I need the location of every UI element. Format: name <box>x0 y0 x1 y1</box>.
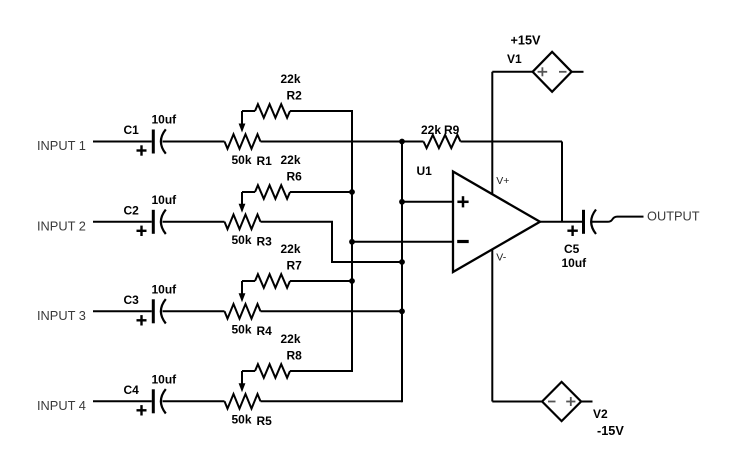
node junction C <box>399 259 405 265</box>
svg-text:50k: 50k <box>232 413 252 427</box>
wire <box>163 141 225 143</box>
capacitor C3 10uf <box>124 282 178 325</box>
svg-text:10uf: 10uf <box>562 256 588 270</box>
source V1 +15V <box>507 34 584 92</box>
wire <box>93 400 152 402</box>
svg-text:10uf: 10uf <box>152 193 178 207</box>
svg-text:C4: C4 <box>124 383 140 397</box>
capacitor C2 10uf <box>124 193 178 236</box>
svg-text:R2: R2 <box>287 89 303 103</box>
svg-text:-15V: -15V <box>597 424 624 438</box>
svg-text:C2: C2 <box>124 203 140 217</box>
resistor R7 22k <box>242 242 352 288</box>
potentiometer R5 50k <box>225 371 273 428</box>
wire to op-amp non-inverting input <box>402 201 453 203</box>
svg-text:C3: C3 <box>124 293 140 307</box>
wire row1 pot to summing bus <box>261 141 403 143</box>
wire row3 pot to bus <box>261 310 403 312</box>
node INPUT 1 label <box>37 138 86 153</box>
node junction F <box>349 239 355 245</box>
svg-text:C1: C1 <box>124 123 140 137</box>
svg-text:R3: R3 <box>257 234 273 248</box>
svg-text:INPUT 1: INPUT 1 <box>37 138 86 153</box>
wire row4 pot to bus <box>261 400 403 402</box>
wire <box>93 310 152 312</box>
svg-text:V2: V2 <box>593 407 608 421</box>
svg-text:22k: 22k <box>281 332 301 346</box>
svg-text:22k: 22k <box>281 72 301 86</box>
potentiometer R3 50k <box>225 192 273 248</box>
svg-text:V-: V- <box>496 251 506 263</box>
svg-text:R5: R5 <box>257 414 273 428</box>
resistor R8 22k <box>242 332 352 378</box>
svg-text:R8: R8 <box>287 349 303 363</box>
svg-text:R1: R1 <box>257 154 273 168</box>
wire <box>163 221 225 223</box>
node junction G <box>349 278 355 284</box>
node junction A <box>399 139 405 145</box>
resistor R6 22k <box>242 153 352 199</box>
svg-text:U1: U1 <box>417 164 433 178</box>
capacitor C5 10uf <box>562 210 597 271</box>
wire to op-amp inverting input <box>352 241 453 243</box>
wire to OUTPUT <box>592 217 644 222</box>
svg-text:INPUT 3: INPUT 3 <box>37 308 86 323</box>
wire feedback to output <box>561 142 563 222</box>
resistor R2 22k <box>242 72 352 118</box>
wire row2 pot to bus <box>261 222 403 262</box>
node INPUT 4 label <box>37 398 86 413</box>
svg-text:R4: R4 <box>257 324 273 338</box>
potentiometer R4 50k <box>225 281 273 338</box>
capacitor C1 10uf <box>124 113 178 156</box>
wire V- rail <box>492 249 542 401</box>
node OUTPUT label <box>647 208 700 223</box>
svg-text:INPUT 4: INPUT 4 <box>37 398 86 413</box>
svg-text:V+: V+ <box>496 175 509 187</box>
wire left vertical bus <box>351 110 353 372</box>
svg-text:10uf: 10uf <box>152 113 178 127</box>
svg-text:22k: 22k <box>281 242 301 256</box>
wire V+ rail <box>492 72 532 194</box>
svg-text:50k: 50k <box>232 323 252 337</box>
node junction E <box>349 189 355 195</box>
svg-text:10uf: 10uf <box>152 282 178 296</box>
svg-text:50k: 50k <box>232 153 252 167</box>
node INPUT 3 label <box>37 308 86 323</box>
svg-text:50k: 50k <box>232 233 252 247</box>
wire right vertical bus <box>401 141 403 403</box>
svg-text:22k: 22k <box>421 123 441 137</box>
svg-text:R6: R6 <box>287 170 303 184</box>
svg-text:V1: V1 <box>507 52 522 66</box>
wire <box>163 310 225 312</box>
node INPUT 2 label <box>37 219 86 234</box>
wire op-amp output <box>540 221 582 223</box>
wire <box>163 400 225 402</box>
wire <box>93 221 152 223</box>
svg-text:C5: C5 <box>564 242 580 256</box>
resistor R9 22k <box>402 123 562 148</box>
capacitor C4 10uf <box>124 372 178 415</box>
op-amp U1 <box>417 164 541 272</box>
source V2 -15V <box>542 382 624 438</box>
svg-text:10uf: 10uf <box>152 372 178 386</box>
node junction D <box>399 308 405 314</box>
svg-text:OUTPUT: OUTPUT <box>647 208 700 223</box>
svg-text:22k: 22k <box>281 153 301 167</box>
wire <box>93 141 152 143</box>
potentiometer R1 50k <box>225 111 273 168</box>
svg-text:+15V: +15V <box>511 34 542 48</box>
svg-text:R7: R7 <box>287 259 303 273</box>
node junction B <box>399 199 405 205</box>
svg-text:INPUT 2: INPUT 2 <box>37 219 86 234</box>
